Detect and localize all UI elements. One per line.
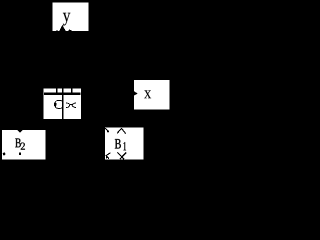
arrowhead into B2 top (pointing down) <box>18 130 23 133</box>
label y <box>63 13 71 26</box>
top strip tick 3 <box>71 88 73 92</box>
arrowhead into x (pointing right) <box>134 91 138 96</box>
arrowhead tip at y bottom-right <box>69 29 73 30</box>
subscript 1 of B1 <box>124 142 127 150</box>
chevron arrowhead at B1 bottom-left <box>106 153 110 159</box>
node y <box>53 2 89 31</box>
diamond mark at B2 left <box>3 152 6 156</box>
horizontal wire band across box <box>44 92 81 95</box>
middle junction box <box>44 88 81 119</box>
label x <box>144 90 151 98</box>
node B2 <box>2 130 45 160</box>
diagonal arrow into B1 top-left corner <box>105 128 108 132</box>
loop with arrowhead (left cell) <box>55 101 63 109</box>
label B of B1 <box>115 139 121 148</box>
crossing wires at B1 bottom <box>117 153 124 160</box>
node B1 <box>105 128 144 160</box>
dot at y bottom edge <box>56 29 57 32</box>
chevron arrowhead at B1 top (pointing up) <box>117 128 126 133</box>
top strip tick 2 <box>62 88 64 92</box>
arrowhead into y (large, pointing up) <box>59 25 65 31</box>
label B of B2 <box>15 139 21 148</box>
crossing wires with hop (right cell) <box>66 103 76 108</box>
top strip tick 1 <box>56 88 58 92</box>
square mark below B2 subscript <box>19 152 21 155</box>
vertical wire through box <box>62 95 63 119</box>
node x <box>134 80 170 110</box>
subscript 2 of B2 <box>21 143 25 150</box>
